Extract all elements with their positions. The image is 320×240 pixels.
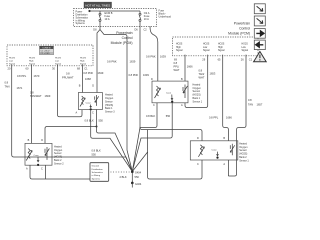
oxygen sensor B1S1 box — [151, 78, 188, 107]
svg-text:HO2S: HO2S — [242, 43, 249, 45]
svg-text:WHT: WHT — [199, 76, 205, 80]
label HO2S High Signal r3 — [218, 43, 225, 52]
svg-text:0.8 PPL: 0.8 PPL — [17, 74, 27, 78]
svg-text:Module (PCM): Module (PCM) — [111, 41, 133, 45]
fuse F2 O2 A — [139, 12, 150, 22]
svg-text:PPL/WHT: PPL/WHT — [62, 75, 74, 79]
svg-text:HOT AT ALL TIMES: HOT AT ALL TIMES — [85, 3, 110, 7]
svg-text:Underhood: Underhood — [159, 16, 172, 19]
svg-text:WHT: WHT — [174, 68, 180, 72]
wire fuse2 top stub — [139, 11, 141, 13]
wire splice to ground — [131, 172, 133, 183]
label HO2S Low Signal r2 — [203, 43, 210, 52]
heater element B1S1 — [157, 86, 159, 96]
svg-text:C: C — [92, 112, 94, 115]
svg-text:High: High — [218, 47, 223, 49]
svg-text:Signal: Signal — [176, 50, 183, 52]
wire PNK fuse2 down to shelf for sensor B2S1 pin D — [140, 27, 202, 141]
svg-text:Systems: Systems — [92, 177, 101, 180]
label HO2S High Signal g4 — [80, 57, 87, 65]
svg-text:1666: 1666 — [187, 65, 193, 69]
label HO2S High Signal r1 — [176, 43, 183, 52]
svg-text:TAN: TAN — [248, 103, 253, 107]
svg-text:Control: Control — [239, 27, 250, 31]
svg-text:TAN/WHT: TAN/WHT — [30, 94, 42, 98]
svg-text:1671: 1671 — [17, 86, 23, 90]
icon arrow diag 1 — [254, 4, 265, 14]
svg-text:Powertrain: Powertrain — [234, 22, 250, 26]
svg-text:C: C — [41, 168, 43, 171]
wire PNK fuse2 second exit to sensor B1S1 pin D — [150, 27, 158, 82]
svg-text:PPL/: PPL/ — [174, 65, 180, 69]
svg-text:Case: Case — [212, 150, 218, 152]
fuse F1 ECM B — [99, 12, 113, 22]
fuse block dashed box — [74, 9, 157, 27]
svg-text:C1: C1 — [84, 66, 88, 70]
wire PPL 1666 low to sensor B2S1 pin B — [223, 55, 229, 141]
wire PPL/WHT 1666 to sensor B1S1 pin B — [184, 55, 186, 81]
svg-text:Module (PCM): Module (PCM) — [228, 32, 250, 36]
svg-text:10 A: 10 A — [144, 18, 149, 21]
reference note Power Distribution — [76, 11, 89, 26]
svg-text:550: 550 — [135, 175, 140, 179]
node splice S404 — [131, 171, 134, 174]
wire B2S1 pin C ground loop to splice — [148, 130, 202, 179]
svg-text:0.8: 0.8 — [66, 71, 70, 75]
svg-text:Signal: Signal — [9, 63, 16, 65]
svg-text:1668: 1668 — [85, 77, 91, 81]
wire B1S1 case ground — [132, 102, 172, 172]
wire TAN/WHT 1669 to HO2S B1S3 pin A — [58, 65, 83, 117]
svg-text:in Wiring: in Wiring — [92, 174, 101, 177]
svg-text:HO2S: HO2S — [176, 43, 183, 45]
svg-text:0.8 PNK: 0.8 PNK — [146, 55, 156, 59]
wire B2S1 pin A stub — [227, 160, 229, 176]
svg-text:Systems: Systems — [76, 22, 86, 25]
svg-text:0.8 PPL: 0.8 PPL — [209, 116, 219, 120]
wire PNK feed to sensor B1S3 pin D — [97, 30, 100, 93]
svg-text:C: C — [197, 163, 199, 166]
oxygen sensor B2S1 box — [190, 137, 238, 166]
svg-text:0.8: 0.8 — [5, 81, 9, 85]
wire fuse2 bottom stub — [139, 21, 141, 26]
svg-text:Signal: Signal — [218, 50, 225, 52]
oxygen sensor B2S2 box — [25, 139, 52, 171]
svg-text:Signal: Signal — [80, 63, 87, 65]
svg-text:550: 550 — [92, 153, 97, 157]
label HO2S Low Signal g1 — [9, 57, 16, 65]
label Powertrain Control Module PCM right — [228, 22, 250, 36]
svg-text:0.8 PNK: 0.8 PNK — [83, 71, 93, 75]
svg-text:C2 = RED: C2 = RED — [41, 53, 51, 55]
label Fuse Block Underhood — [159, 9, 172, 18]
svg-text:0.8 BLK: 0.8 BLK — [92, 149, 101, 153]
svg-text:Case: Case — [34, 155, 40, 157]
wire PPL/WHT 1668 to HO2S B1S3 pin B — [82, 65, 84, 93]
svg-text:Sensor 2: Sensor 2 — [54, 162, 64, 165]
PCM left dashed box — [7, 45, 93, 66]
wire TAN 1671 to ground shelf — [12, 65, 133, 172]
svg-text:Signal: Signal — [55, 63, 62, 65]
svg-text:D: D — [151, 78, 153, 81]
svg-text:1639: 1639 — [98, 71, 104, 75]
svg-text:D: D — [197, 137, 199, 140]
svg-text:0.8 PNK: 0.8 PNK — [107, 60, 117, 64]
wire B2S2 grounds to ref box — [30, 165, 90, 179]
svg-text:Sensor 1: Sensor 1 — [239, 159, 249, 162]
wire B1S3 heater ground — [97, 110, 133, 172]
svg-text:1653: 1653 — [210, 71, 216, 75]
svg-text:1669: 1669 — [45, 94, 51, 98]
label HO2S Low Signal g3 — [55, 57, 62, 65]
svg-text:Distribution: Distribution — [92, 168, 104, 171]
wire B2S1 ground diagonal to splice — [132, 152, 147, 172]
svg-text:TAN/: TAN/ — [199, 72, 205, 76]
heater element B1S3 — [82, 96, 84, 104]
label HO2S Low Signal r4 — [242, 43, 249, 52]
svg-text:HO2S: HO2S — [29, 57, 35, 59]
svg-text:C: C — [153, 104, 155, 107]
label Heated Oxygen Sensor B2S2 — [54, 145, 64, 165]
wire dashed leader to splice — [111, 171, 130, 173]
heater element B2S1 — [200, 145, 202, 155]
svg-text:Control: Control — [122, 36, 133, 40]
svg-text:High: High — [80, 60, 85, 62]
label Heated Oxygen Sensor B1S3 — [105, 94, 115, 114]
svg-text:550: 550 — [166, 114, 171, 118]
connector ID table — [40, 46, 54, 55]
svg-text:1657: 1657 — [257, 103, 263, 107]
svg-text:C1: C1 — [249, 58, 253, 62]
node bus feed dot — [88, 10, 90, 12]
svg-text:1639: 1639 — [130, 60, 136, 64]
svg-text:Powertrain: Powertrain — [116, 31, 132, 35]
svg-text:D: D — [92, 85, 94, 88]
svg-text:0.8 BLK: 0.8 BLK — [85, 119, 94, 123]
icon arrow left — [254, 40, 265, 50]
svg-text:1639: 1639 — [160, 55, 166, 59]
icon warning triangle — [254, 52, 267, 62]
svg-text:High: High — [29, 60, 34, 62]
o2 element B1S3 — [95, 95, 97, 106]
label HOT AT ALL TIMES — [84, 2, 112, 8]
svg-text:Signal: Signal — [203, 50, 210, 52]
label Heated Oxygen Sensor B2S1 — [239, 142, 249, 162]
svg-text:1666: 1666 — [226, 116, 232, 120]
svg-text:2 BLK: 2 BLK — [120, 175, 127, 179]
svg-text:0.8: 0.8 — [30, 91, 34, 95]
oxygen sensor B1S3 box — [76, 85, 103, 115]
svg-text:Signal: Signal — [29, 63, 36, 65]
svg-text:TAN: TAN — [5, 85, 10, 89]
icon arrow diag 2 — [254, 16, 265, 26]
svg-text:HO2S: HO2S — [218, 43, 225, 45]
svg-text:0.8: 0.8 — [248, 98, 252, 102]
label HO2S High Signal g2 — [29, 57, 36, 65]
label Powertrain Control Module PCM left — [111, 31, 133, 45]
svg-text:S404: S404 — [135, 171, 142, 175]
svg-text:HO2S: HO2S — [80, 57, 86, 59]
svg-text:Low: Low — [203, 47, 208, 49]
svg-text:Sensor 3: Sensor 3 — [105, 111, 115, 114]
o2 element B2S1 — [230, 144, 232, 156]
ground G404 — [131, 182, 134, 185]
o2 element B2S2 — [45, 147, 47, 160]
wire B1S3 case ground — [91, 110, 133, 172]
svg-text:HO2S: HO2S — [9, 57, 15, 59]
svg-text:Signal: Signal — [242, 50, 249, 52]
wire TAN 1657 to sensor B2S1 pin A — [228, 55, 246, 176]
svg-text:Low: Low — [9, 60, 13, 62]
label Heated Oxygen Sensor B1S1 — [193, 83, 203, 103]
svg-text:Case: Case — [86, 103, 92, 105]
svg-text:Low: Low — [242, 47, 247, 49]
o2 element B1S1 — [183, 85, 185, 99]
ground ref box Ground Distribution — [90, 163, 109, 182]
svg-text:Case: Case — [166, 93, 172, 95]
icon arrow right — [254, 29, 265, 39]
svg-text:1639: 1639 — [143, 73, 149, 77]
svg-text:0.8 BLK: 0.8 BLK — [146, 114, 155, 118]
svg-text:Low: Low — [55, 60, 59, 62]
svg-text:HO2S: HO2S — [203, 43, 210, 45]
wire low bus to HO2S B2S2 pin D — [45, 127, 97, 144]
svg-text:10 A: 10 A — [105, 18, 110, 21]
wire fuse1 bottom stub — [99, 21, 101, 26]
wire TAN/WHT 1653 to sensor B1S1 pin A — [185, 55, 208, 108]
svg-text:Schematics: Schematics — [92, 171, 104, 174]
heater element B2S2 — [28, 149, 30, 159]
svg-text:G404: G404 — [135, 182, 142, 186]
svg-text:0.8: 0.8 — [174, 61, 178, 65]
PCM right dashed box — [173, 37, 259, 56]
svg-text:HO2S: HO2S — [55, 57, 61, 59]
wire PPL 1670 to HO2S B2S2 pin B — [31, 65, 33, 144]
wire bus inside fuse block — [90, 10, 141, 12]
svg-text:High: High — [176, 47, 181, 49]
svg-text:Ground: Ground — [92, 165, 100, 168]
wire PNK branch to x127 — [100, 27, 132, 172]
node low bus junction — [96, 126, 98, 128]
svg-text:550: 550 — [99, 119, 104, 123]
wire fuse1 top stub — [99, 11, 101, 13]
svg-text:D: D — [41, 139, 43, 142]
svg-text:1670: 1670 — [34, 74, 40, 78]
svg-text:0.8: 0.8 — [199, 68, 203, 72]
wire B1S1 heater ground — [132, 103, 157, 172]
svg-text:0.8 PNK: 0.8 PNK — [129, 73, 139, 77]
svg-text:Sensor 1: Sensor 1 — [193, 100, 203, 103]
